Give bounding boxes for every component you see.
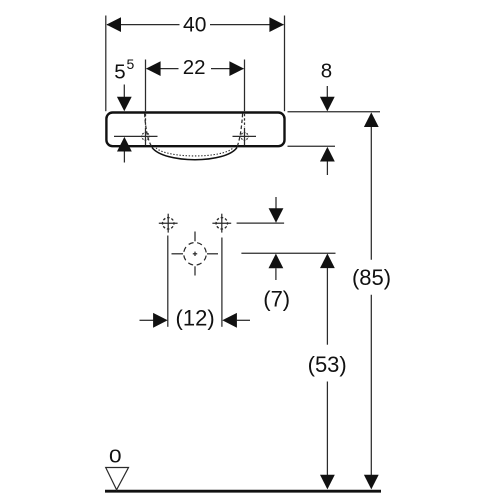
dimension (7): down arrow	[275, 197, 277, 209]
fixing hole left (plan): crosshair + dashed circle	[159, 214, 178, 233]
svg-text:(12): (12)	[176, 305, 215, 330]
svg-text:(7): (7)	[263, 286, 290, 311]
bowl hidden edge right (dashed)	[237, 114, 243, 148]
dimension (7): top ref line at fixing holes	[237, 222, 285, 224]
dimension (12): extension lines	[167, 236, 169, 327]
dimension (12): left arrow pointing right	[140, 319, 155, 321]
bowl hidden edge left (dashed)	[145, 114, 153, 148]
dimension 22: extension lines	[145, 60, 147, 112]
svg-text:8: 8	[321, 60, 332, 83]
datum zero triangle	[106, 468, 129, 490]
dimension 40: arrows	[106, 17, 121, 32]
svg-text:5: 5	[114, 60, 125, 83]
fixing hole right (plan): crosshair + dashed circle	[212, 214, 231, 233]
dimension 22: arrows	[146, 61, 161, 76]
drain hole (plan): dashed circle + centerlines	[172, 232, 219, 276]
svg-text:40: 40	[183, 14, 206, 37]
tap hole left: crosshair + dashed circle	[114, 114, 158, 145]
ref line bottom of basin (right side)	[288, 145, 336, 147]
dimension (7): bottom ref line at drain level	[241, 252, 335, 254]
bowl bottom bulge (solid)	[152, 147, 237, 159]
dimension 22: dimension line	[147, 68, 179, 70]
svg-text:(53): (53)	[308, 352, 347, 377]
svg-text:5: 5	[127, 56, 135, 72]
ref line top of basin (right side)	[288, 111, 381, 113]
dimension (85): vertical line with arrows	[370, 127, 372, 260]
svg-text:(85): (85)	[352, 265, 391, 290]
basin outline (front view)	[106, 113, 284, 147]
dimension 5-5: arrow up to tap line	[117, 137, 132, 152]
dimension (12): right arrow pointing left	[222, 313, 237, 328]
dimension 40: dimension line	[107, 24, 180, 26]
dimension 40: extension lines	[105, 16, 107, 112]
dimension 8: arrow down to top ref line	[326, 86, 328, 98]
bowl inner bottom arc (fine dashed)	[156, 148, 233, 156]
dimension 8: arrow up to bottom ref line	[320, 147, 335, 162]
svg-text:0: 0	[109, 447, 122, 468]
ground line	[105, 490, 381, 493]
svg-text:22: 22	[183, 56, 206, 79]
dimension (7): up arrow	[269, 254, 284, 269]
tap hole right: crosshair + dashed circle	[233, 114, 257, 145]
dimension (53): vertical line with arrows	[326, 268, 328, 345]
dimension 5-5: arrow down to basin top	[123, 85, 125, 99]
